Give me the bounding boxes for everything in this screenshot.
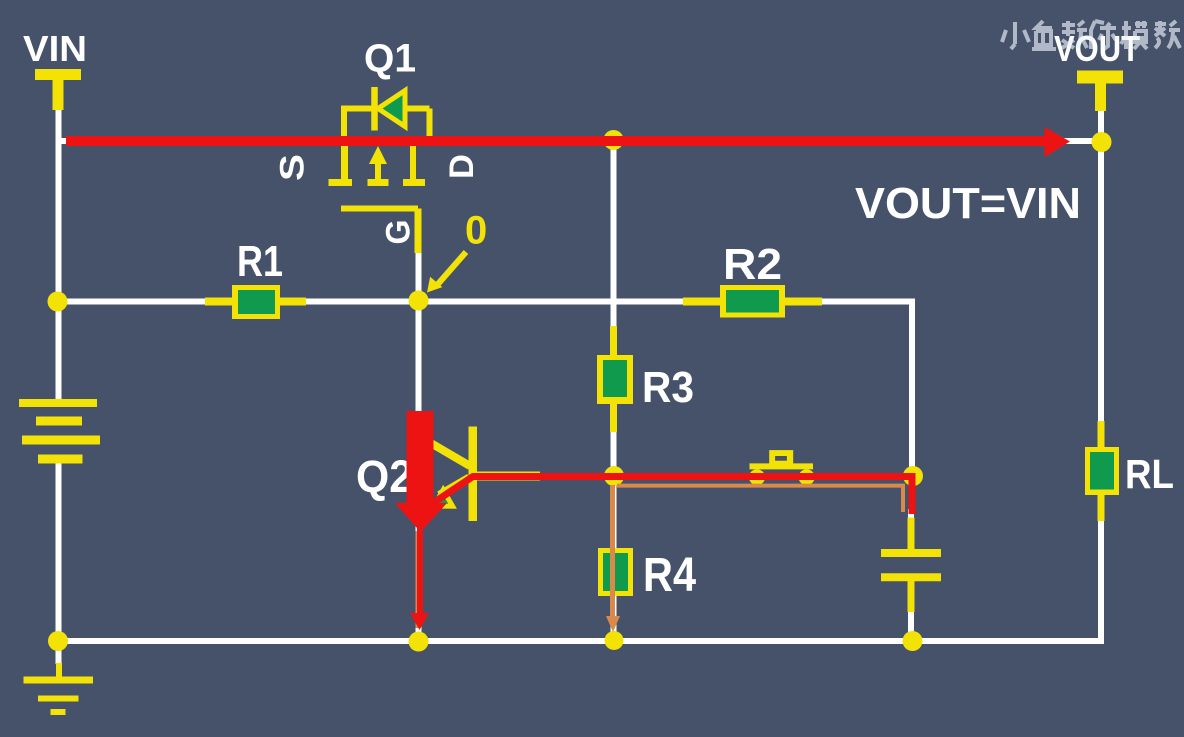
svg-text:VIN: VIN [23, 28, 87, 69]
svg-text:G: G [380, 220, 418, 245]
svg-text:R1: R1 [237, 237, 283, 286]
svg-text:Q2: Q2 [356, 451, 413, 502]
svg-text:0: 0 [465, 209, 487, 253]
svg-text:R3: R3 [642, 363, 694, 412]
svg-text:VOUT=VIN: VOUT=VIN [855, 179, 1081, 228]
svg-text:Q1: Q1 [364, 37, 416, 81]
svg-text:R2: R2 [723, 240, 782, 289]
svg-text:RL: RL [1125, 451, 1174, 497]
svg-text:D: D [443, 154, 481, 179]
svg-text:S: S [274, 154, 312, 181]
svg-text:R4: R4 [643, 549, 696, 602]
